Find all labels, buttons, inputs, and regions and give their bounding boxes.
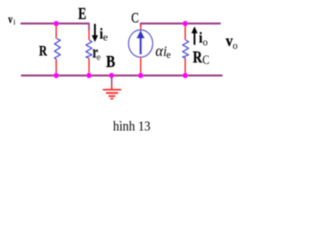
current arrow ie [92, 24, 98, 42]
junction re bottom [86, 73, 91, 78]
wire RC bottom lead [184, 58, 186, 74]
wire corner at C from current source [141, 24, 143, 27]
svg-text:C: C [131, 10, 139, 26]
svg-text:R: R [39, 43, 47, 59]
junction ground / node B [109, 73, 114, 78]
junction RC bottom [183, 73, 188, 78]
wire corner at E into re [88, 24, 90, 31]
svg-text:v: v [8, 12, 12, 26]
svg-text:o: o [233, 41, 238, 52]
svg-text:R: R [193, 47, 203, 66]
resistor re [86, 40, 92, 58]
label io [199, 30, 208, 48]
label ie [100, 26, 108, 43]
wire bottom bus [21, 75, 223, 77]
junction R bottom [54, 73, 59, 78]
svg-text:C: C [202, 52, 209, 67]
wire current source top lead [140, 24, 142, 30]
wire top-left bus (vi to E) [21, 23, 90, 25]
ground [104, 77, 121, 99]
label alpha ie [155, 43, 171, 61]
svg-text:hình 13: hình 13 [113, 120, 151, 135]
svg-text:e: e [103, 31, 108, 43]
wire current source bottom lead [140, 57, 142, 75]
junction current source bottom [138, 73, 143, 78]
wire re top lead [88, 30, 90, 41]
junction node E / R top [54, 21, 59, 26]
junction RC top [183, 21, 188, 26]
label re [92, 42, 100, 62]
label vi [8, 12, 16, 27]
svg-text:B: B [106, 52, 115, 71]
wire RC top lead [184, 25, 186, 41]
label RC [193, 47, 210, 67]
current source alpha-ie (U1) [129, 30, 153, 57]
wire top-right bus (C to vo) [140, 23, 221, 25]
wire R bottom lead [55, 60, 57, 75]
svg-text:o: o [203, 37, 208, 48]
resistor R [55, 39, 61, 60]
svg-text:e: e [166, 50, 171, 61]
resistor RC [183, 40, 189, 58]
svg-text:e: e [97, 52, 101, 62]
wire R top lead [55, 25, 57, 39]
svg-text:E: E [78, 4, 86, 23]
label vo [226, 33, 238, 52]
wire re bottom lead [88, 58, 90, 74]
current arrow io [191, 26, 197, 44]
